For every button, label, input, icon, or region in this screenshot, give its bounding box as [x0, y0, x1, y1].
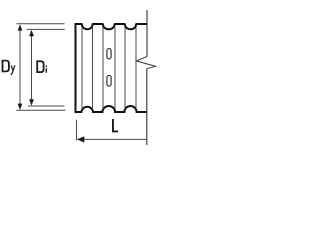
perforation slot 2 — [107, 75, 111, 86]
pipe left end cap — [75, 23, 77, 113]
L left extension line — [76, 120, 78, 141]
corrugation wall line x=92.5 — [92, 28, 94, 110]
extension line inner bottom — [28, 105, 65, 107]
pipe bottom profile (ridges and valley bumps) — [75, 106, 148, 112]
extension line inner top (Di level) — [27, 28, 65, 30]
L dimension line — [78, 138, 147, 140]
extension line outer bottom — [16, 109, 65, 111]
label L — [112, 119, 118, 132]
right edge upper segment — [146, 10, 148, 57]
corrugation wall line x=82 — [81, 28, 83, 110]
corrugation wall line x=115 — [114, 28, 116, 110]
arrow Dy top — [18, 24, 23, 30]
arrow Di top — [29, 30, 34, 36]
arrow Di bottom — [29, 99, 34, 105]
dimension line Di — [31, 31, 33, 104]
right edge lower segment / L extension — [146, 69, 148, 145]
arrow Dy bottom — [18, 104, 23, 110]
label Dy — [2, 60, 10, 73]
dimension line Dy — [19, 26, 21, 108]
corrugation wall line x=103 — [102, 28, 104, 110]
perforation slot 1 — [107, 49, 111, 59]
arrow L left — [77, 136, 84, 142]
corrugation wall line x=125 — [124, 28, 126, 110]
corrugation wall line x=136 — [135, 28, 137, 110]
extension line outer top (Dy level) — [17, 23, 65, 25]
break zigzag — [136, 56, 155, 68]
label Di — [36, 60, 44, 73]
pipe top profile (ridges and valleys) — [75, 24, 148, 29]
